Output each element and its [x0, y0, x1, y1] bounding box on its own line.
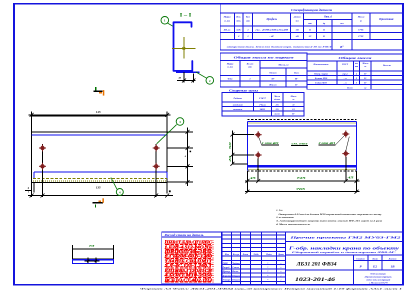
- svg-text:Всего кг: Всего кг: [382, 65, 391, 67]
- svg-text:одного: одного: [274, 98, 280, 101]
- bottom dimensions of plan view: [246, 171, 248, 193]
- svg-text:Подп.: Подп.: [265, 253, 272, 256]
- svg-text:Марка: Марка: [223, 16, 232, 19]
- section cut mark bottom: [93, 202, 103, 204]
- svg-text:эл-та: эл-та: [226, 67, 234, 69]
- svg-text:Профиль: Профиль: [265, 18, 277, 21]
- title block left grid: [222, 234, 285, 236]
- svg-text:Марка: Марка: [226, 64, 234, 66]
- svg-text:Болты М10: Болты М10: [314, 77, 328, 80]
- hole symbol: [40, 164, 45, 169]
- svg-text:1С: 1С: [309, 35, 312, 38]
- section cut mark top: [93, 90, 102, 92]
- plan view hidden top edge: [248, 118, 357, 120]
- svg-text:– 4С: – 4С: [268, 35, 274, 38]
- svg-text:2 отв ⌀11: 2 отв ⌀11: [317, 141, 336, 145]
- svg-text:ГОСТ: ГОСТ: [341, 64, 349, 66]
- svg-text:СЧС: СЧС: [358, 35, 364, 38]
- hole labels with leaders: [262, 144, 280, 146]
- svg-text:1: 1: [247, 29, 248, 32]
- svg-text:г: г: [280, 263, 281, 265]
- svg-text:кг: кг: [364, 66, 366, 68]
- svg-text:Утверд: Утверд: [223, 279, 232, 282]
- svg-text:45: 45: [346, 176, 355, 180]
- channel section profile: [174, 22, 193, 71]
- svg-text:725: 725: [297, 176, 307, 180]
- right dimension chain: [167, 147, 193, 149]
- red grid content: [163, 240, 213, 283]
- svg-text:М°: М°: [294, 77, 298, 80]
- svg-text:Сборочный чертёж и деталировка: Сборочный чертёж и деталировка ЛВ8-М°: [292, 251, 396, 254]
- svg-text:Масса: Масса: [357, 16, 365, 19]
- svg-text:зЧасы: зЧасы: [258, 104, 266, 107]
- svg-text:Кол-во: Кол-во: [246, 64, 255, 66]
- svg-text:Юшков: Юшков: [231, 275, 240, 277]
- svg-text:Разраб: Разраб: [223, 266, 231, 269]
- svg-text:Спецификация детали: Спецификация детали: [291, 8, 332, 12]
- svg-text:765: 765: [296, 187, 306, 191]
- svg-text:Формат А3 Файл: ЛБЗ1-201-ФВ3: Формат А3 Файл: ЛБЗ1-201-ФВ34 нак-лб коп…: [140, 287, 402, 290]
- plan hidden lines: [249, 122, 356, 124]
- balloon 2: [206, 77, 214, 85]
- svg-text:К: К: [322, 35, 325, 38]
- svg-text:Изм: Изм: [224, 254, 230, 256]
- svg-text:Листов: Листов: [388, 258, 397, 260]
- svg-text:Длина: Длина: [293, 16, 302, 19]
- svg-text:Прочие проекты ГМ2 МУ03-ГМ2: Прочие проекты ГМ2 МУ03-ГМ2: [288, 236, 401, 240]
- svg-text:дет.: дет.: [236, 20, 241, 23]
- table: specification of element: [220, 4, 403, 50]
- svg-text:ОАО институт: ОАО институт: [371, 272, 387, 275]
- svg-text:34111: 34111: [259, 108, 266, 111]
- svg-text:Итого: Итого: [268, 83, 277, 86]
- svg-text:г. Москва 12-О7-РЧ: г. Москва 12-О7-РЧ: [369, 282, 388, 284]
- svg-text:мм: мм: [295, 20, 300, 23]
- svg-text:Провер: Провер: [222, 271, 231, 273]
- svg-text:Кол: Кол: [245, 16, 251, 19]
- svg-text:Юшков: Юшков: [231, 280, 240, 282]
- svg-text:1: 1: [249, 77, 250, 80]
- top dimension 145: [31, 111, 33, 116]
- balloon 4: [116, 189, 123, 196]
- svg-text:Ф2н: Ф2н: [228, 77, 233, 80]
- svg-text:СЧС: СЧС: [358, 29, 364, 32]
- svg-text:В°: В°: [291, 113, 295, 116]
- svg-text:дВ: дВ: [296, 35, 299, 38]
- svg-text:Масса: Масса: [290, 96, 297, 98]
- dimension under section: [183, 72, 185, 83]
- title block outer: [222, 232, 403, 285]
- svg-text:кг: кг: [360, 20, 362, 23]
- hole symbol: [154, 164, 159, 169]
- svg-text:В°: В°: [363, 77, 367, 80]
- notes text: [275, 209, 383, 226]
- svg-text:20: 20: [228, 155, 232, 164]
- hole symbol: [344, 151, 349, 156]
- svg-text:45: 45: [248, 176, 257, 180]
- svg-text:Масса: Масса: [273, 96, 280, 98]
- svg-text:кг: кг: [364, 86, 366, 89]
- svg-text:1 отв ⌀11: 1 отв ⌀11: [262, 141, 280, 145]
- svg-text:эл-та: эл-та: [223, 20, 231, 23]
- hole symbol: [256, 153, 261, 158]
- svg-text:1: 1: [247, 35, 248, 38]
- front view outline: [32, 115, 168, 117]
- svg-text:монтаж: монтаж: [232, 108, 243, 111]
- svg-text:кг: кг: [293, 99, 295, 101]
- svg-text:2%: 2%: [275, 108, 279, 111]
- svg-text:Всех: Всех: [293, 72, 300, 74]
- svg-text:дВ: дВ: [296, 29, 299, 32]
- svg-text:В°: В°: [294, 83, 298, 86]
- svg-text:1. Ггд: 1. Ггд: [276, 209, 283, 212]
- svg-text:Всего: Всего: [346, 86, 354, 89]
- svg-text:шт: шт: [246, 20, 250, 23]
- svg-text:г: г: [280, 280, 281, 282]
- svg-text:Ивлев: Ивлев: [231, 271, 238, 273]
- small dimension inside: [87, 258, 89, 264]
- table: total mass: [307, 54, 403, 89]
- svg-text:ГОСТ: ГОСТ: [258, 97, 266, 100]
- bottom view plate bar (blue): [72, 260, 113, 264]
- svg-text:Стадия: Стадия: [357, 257, 366, 260]
- svg-text:2%: 2%: [275, 104, 279, 107]
- svg-text:11: 11: [292, 104, 294, 107]
- svg-text:«Проектстальконструкция»: «Проектстальконструкция»: [364, 276, 392, 278]
- svg-text:Общая масса по маркам: Общая масса по маркам: [234, 55, 294, 59]
- svg-text:В°: В°: [339, 45, 344, 49]
- hole symbol: [40, 146, 45, 151]
- svg-text:Примечание: Примечание: [378, 18, 394, 21]
- svg-text:1023-201-46: 1023-201-46: [295, 277, 335, 283]
- svg-text:Общая масса: Общая масса: [339, 56, 373, 60]
- svg-text:I – I: I – I: [180, 13, 192, 18]
- svg-text:Одного: Одного: [269, 71, 277, 74]
- svg-text:В°: В°: [363, 82, 367, 85]
- svg-text:Гайки М10: Гайки М10: [314, 82, 327, 85]
- svg-text:Сварные швы: Сварные швы: [229, 88, 258, 92]
- centerline cross: [172, 47, 196, 49]
- svg-text:11: 11: [309, 29, 311, 32]
- svg-text:гн. 208х60х5х40: гн. 208х60х5х40: [255, 29, 289, 32]
- svg-text:145: 145: [96, 110, 101, 114]
- svg-text:Дата: Дата: [277, 254, 285, 256]
- svg-text:Поз.: Поз.: [235, 16, 241, 19]
- svg-text:Лист: Лист: [242, 254, 249, 256]
- svg-text:Связев: Связев: [232, 267, 239, 269]
- svg-text:спр-в: спр-в: [342, 72, 348, 75]
- svg-text:отверстия диам. 11мм для болто: отверстия диам. 11мм для болтов норм. то…: [227, 46, 333, 49]
- svg-text:Чибаев: Чибаев: [232, 262, 239, 265]
- svg-text:11: 11: [323, 29, 325, 32]
- left dimension of plan view: [231, 131, 233, 164]
- svg-text:Отверстия d-11мм для болтов М1: Отверстия d-11мм для болтов М10 нормальн…: [279, 213, 383, 216]
- bottom dimension 135: [28, 195, 173, 197]
- svg-text:50: 50: [228, 141, 232, 149]
- svg-text:Наименование: Наименование: [313, 64, 329, 66]
- svg-text:заводская: заводская: [232, 104, 244, 107]
- svg-text:ЛБЗ1 201 ФВ34: ЛБЗ1 201 ФВ34: [295, 262, 336, 268]
- svg-text:ЛВ-хх: ЛВ-хх: [223, 29, 231, 32]
- svg-text:Расход стали на деталь: Расход стали на деталь: [165, 234, 205, 237]
- plate edge under channel: [176, 71, 200, 73]
- hole symbol: [344, 132, 349, 137]
- svg-text:Кол.уч: Кол.уч: [232, 254, 240, 256]
- svg-text:Работа: Работа: [234, 97, 243, 100]
- svg-text:Отпр. марки: Отпр. марки: [314, 72, 329, 75]
- svg-text:см. узел: см. узел: [292, 142, 309, 146]
- svg-text:ГИП: ГИП: [222, 263, 228, 265]
- svg-text:всего: всего: [275, 113, 281, 116]
- steel usage table: [162, 232, 222, 284]
- svg-text:М°: М°: [270, 77, 274, 80]
- plan view outline (blue): [248, 120, 357, 122]
- svg-text:шт: шт: [308, 23, 312, 25]
- svg-text:135: 135: [96, 185, 101, 189]
- svg-text:Масса: Масса: [362, 63, 369, 65]
- balloon 1: [161, 17, 169, 25]
- svg-text:В°: В°: [363, 72, 367, 75]
- svg-text:кол: кол: [355, 63, 358, 65]
- svg-text:Е2: Е2: [372, 264, 377, 268]
- svg-text:га: га: [89, 244, 95, 248]
- table: list of shipping marks: [220, 53, 307, 87]
- svg-text:Масса, кг: Масса, кг: [277, 64, 288, 67]
- svg-text:пОС: пОС: [236, 29, 241, 32]
- svg-text:отдел мет. конструкций: отдел мет. конструкций: [366, 278, 391, 281]
- svg-text:г: г: [280, 271, 281, 273]
- plate edges (blue): [32, 134, 168, 136]
- svg-text:шт: шт: [248, 67, 252, 69]
- hole symbol: [154, 146, 159, 151]
- svg-text:г: г: [280, 275, 281, 277]
- svg-text:Н.контр: Н.контр: [222, 275, 233, 277]
- svg-text:Г-обр. накладки крана по объек: Г-обр. накладки крана по объекту: [287, 246, 399, 251]
- svg-text:Отв. d: Отв. d: [324, 16, 332, 19]
- hole column extension lines: [33, 182, 35, 192]
- hidden lines (olive): [33, 177, 167, 179]
- balloon 3: [176, 118, 184, 126]
- svg-text:4. Масса наплавленного кг: 4. Масса наплавленного кг: [275, 223, 310, 226]
- title block right part: [285, 240, 403, 242]
- svg-text:Ndok: Ndok: [252, 254, 259, 256]
- hole symbol: [256, 132, 261, 137]
- svg-text:г: г: [280, 267, 281, 269]
- svg-text:шт: шт: [355, 66, 359, 68]
- svg-text:Лист: Лист: [371, 258, 378, 260]
- bottom view outline: [72, 248, 113, 250]
